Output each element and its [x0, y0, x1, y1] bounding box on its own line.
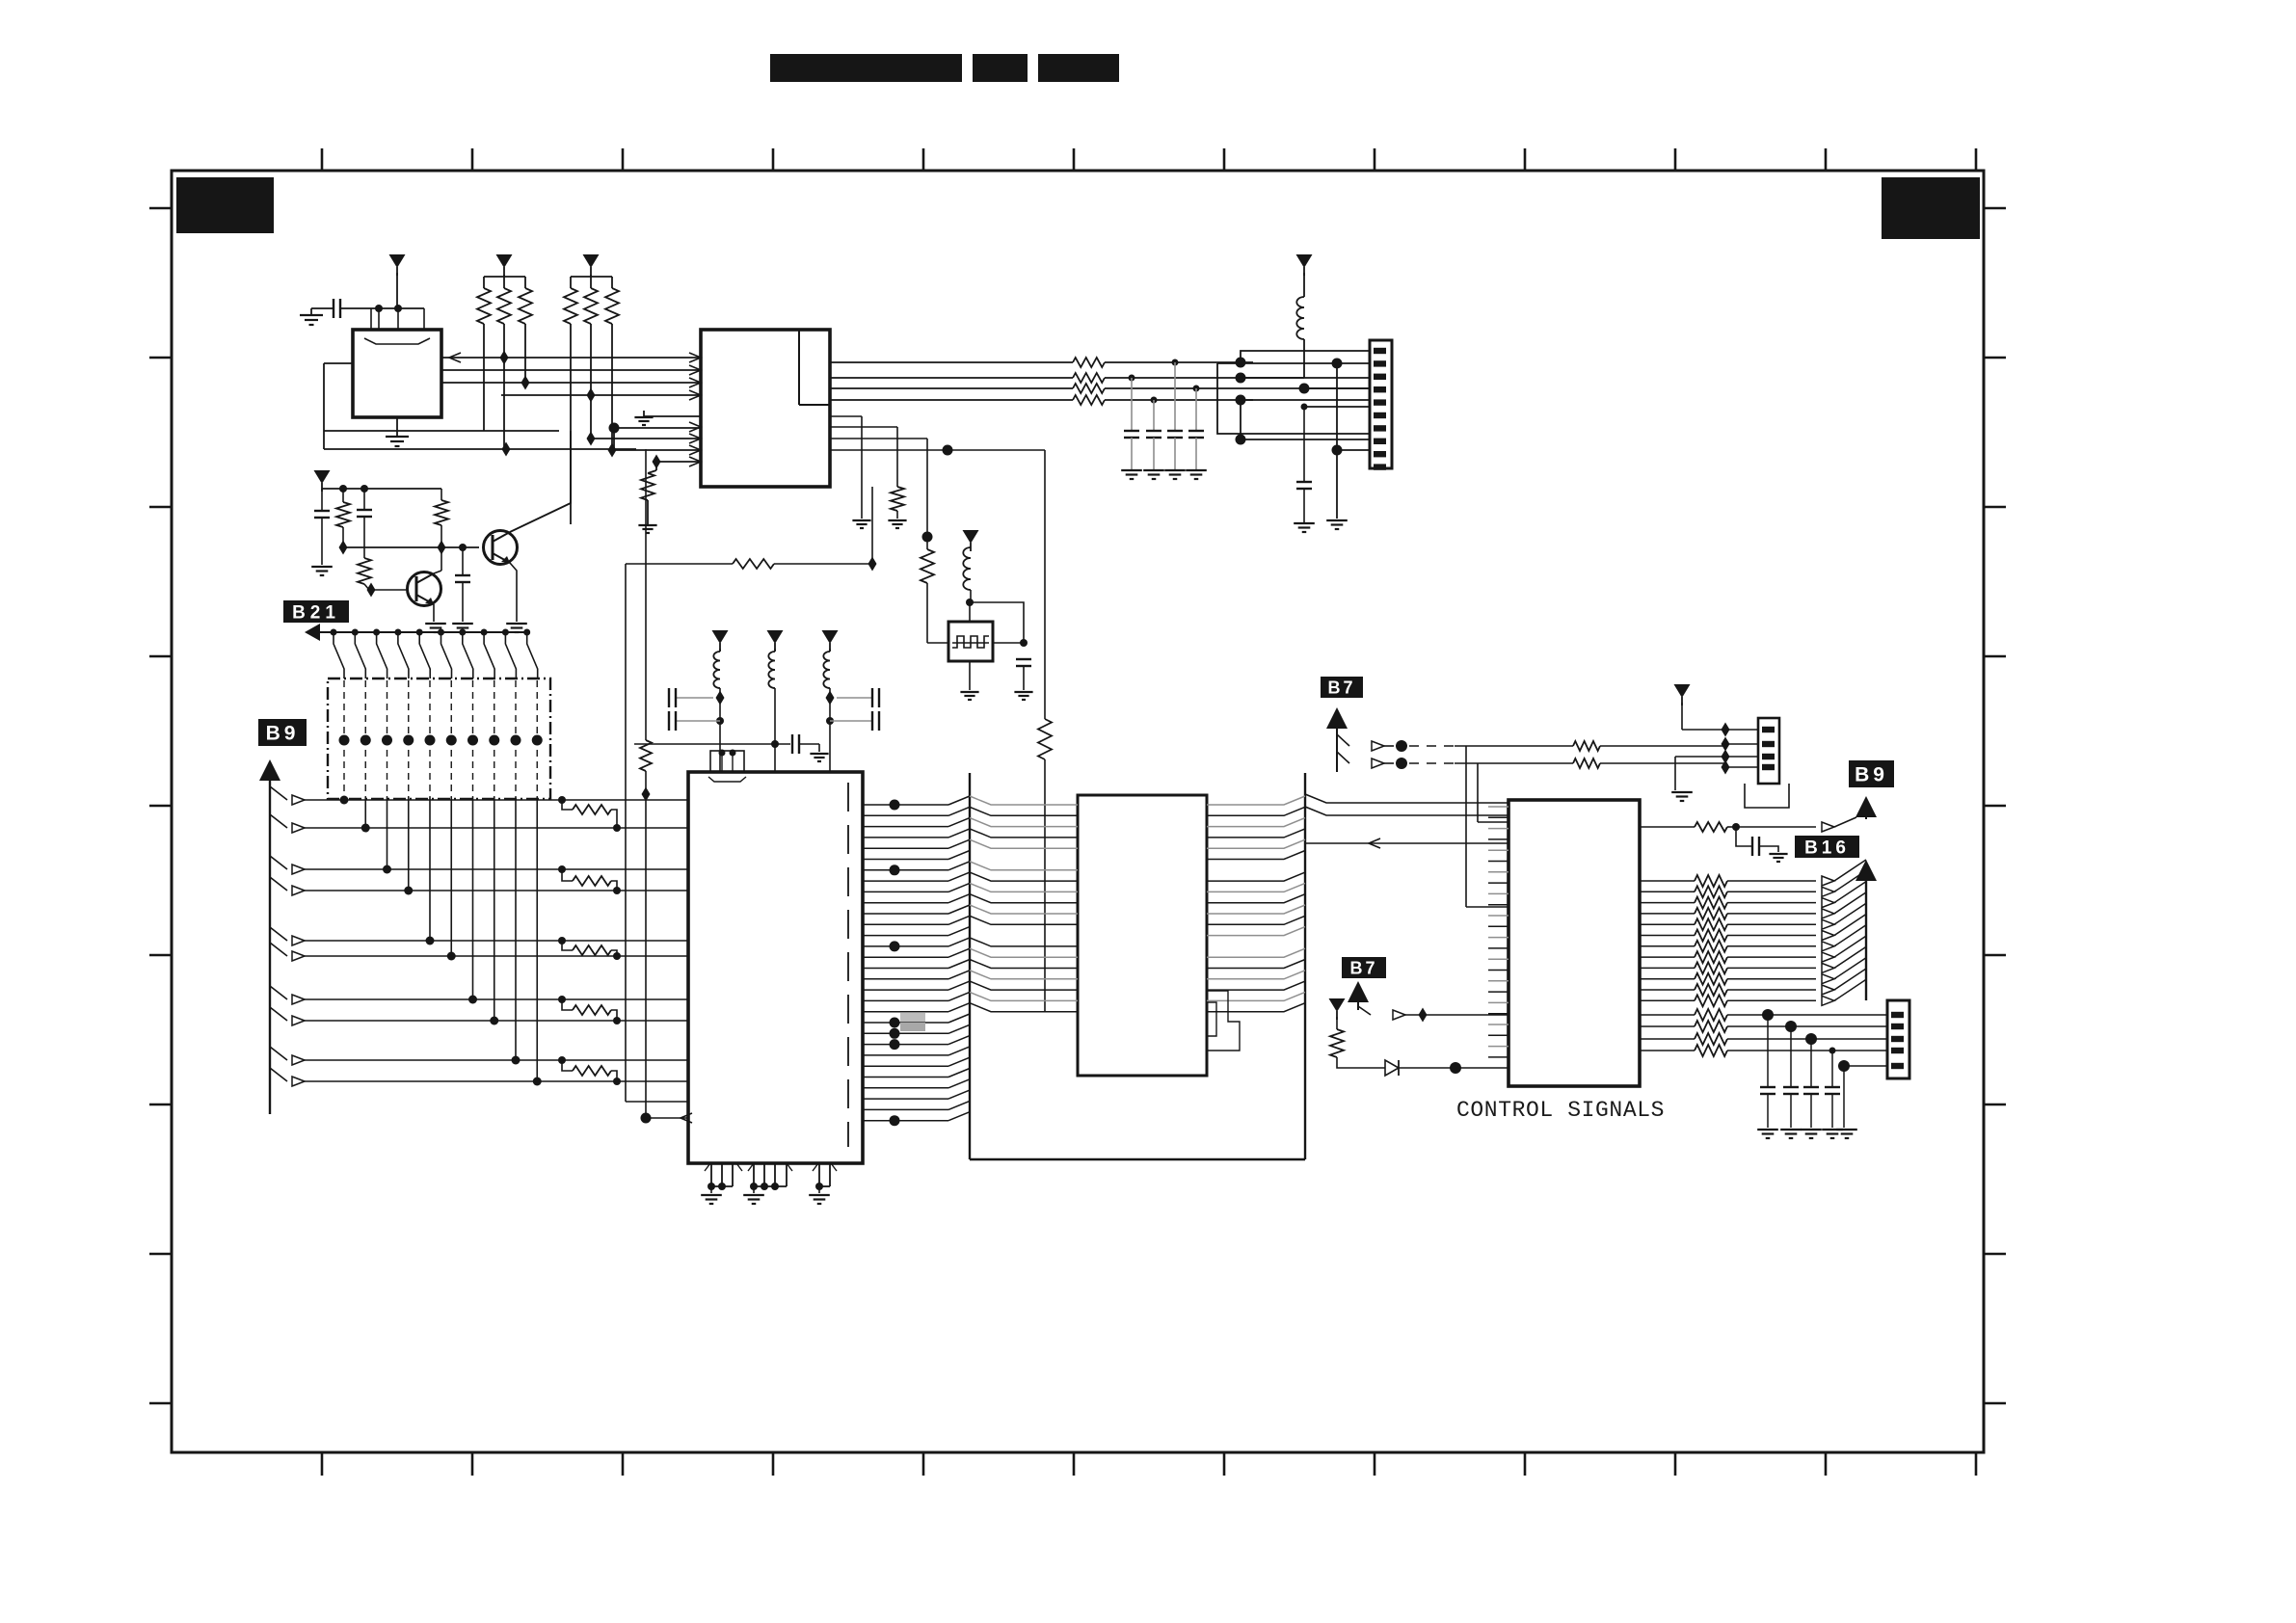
wire bus to IC5 b — [1305, 807, 1508, 815]
wire net y447 — [324, 430, 559, 432]
bus lines inside junction box — [343, 680, 345, 797]
op-amp U1 (top-left IC) — [353, 330, 441, 417]
resistor R24 detour — [558, 1056, 566, 1064]
IC5 left pin stubs — [1488, 806, 1508, 808]
wire below X2 — [1745, 784, 1789, 808]
ground at IC2 left — [644, 415, 701, 417]
wire B7b — [1337, 752, 1349, 763]
capacitor C12 — [1767, 1015, 1769, 1087]
capacitor C14 — [1810, 1039, 1812, 1087]
page link label B9 right — [1849, 760, 1894, 787]
wire IC1 left loop — [324, 362, 353, 364]
IC U4 (memory) — [1078, 795, 1207, 1076]
bus bottom join — [970, 1158, 1305, 1160]
wire net A2 — [830, 377, 1073, 379]
wire net y466 — [324, 448, 636, 450]
resistor R6 — [605, 288, 619, 324]
bus arrow B9 left — [259, 759, 280, 781]
frame tick marks bottom — [321, 1452, 324, 1476]
ground below C9 — [452, 623, 473, 625]
node dots on IC1 top wire — [375, 305, 383, 312]
capacitor C9 — [462, 547, 464, 575]
ground below resonator — [960, 691, 978, 693]
IC4 right pins to bus — [1207, 796, 1305, 805]
resistor R30 — [1573, 741, 1600, 751]
wire net A4b — [1105, 399, 1253, 401]
resistor R1 — [477, 288, 491, 324]
resistor R10 — [1073, 358, 1105, 367]
wire to C10 — [970, 602, 1024, 643]
resistor R21 detour — [558, 865, 566, 873]
IC3 top pin bracket — [710, 751, 744, 772]
capacitor C10 — [1016, 658, 1031, 660]
wire down to C6 — [1303, 407, 1305, 482]
power supply arrow above R stack A — [496, 254, 513, 268]
junction box drop connections — [343, 797, 345, 800]
frame tick marks top — [321, 148, 324, 171]
vertical wire at x1387 — [1336, 363, 1338, 519]
IC2 left pin arrowheads — [689, 353, 701, 362]
capacitor C13 — [1790, 1026, 1792, 1087]
capacitor C6 — [1296, 481, 1312, 483]
power supply arrow top right — [1296, 254, 1313, 268]
Q2 emitter to ground — [433, 604, 435, 622]
wire R5 drop — [590, 324, 592, 439]
resistor R28 — [921, 549, 934, 583]
capacitor C2 to ground — [1129, 375, 1135, 382]
capacitor C8 — [363, 489, 365, 510]
ground under C11 — [1769, 853, 1787, 855]
IC3 bottom pin groups with grounds — [710, 1163, 712, 1186]
wire net A1 — [830, 361, 1073, 363]
connector X3 (5-pin) — [1887, 1000, 1909, 1078]
ground right — [1671, 791, 1693, 793]
IC1 top pin bracket — [370, 308, 372, 330]
svg-text:B9: B9 — [266, 723, 300, 745]
page link label B7 bottom — [1342, 957, 1386, 978]
transistor Q2 — [408, 572, 441, 606]
wire net A low — [1241, 439, 1370, 440]
bus arrow B7 bottom — [1348, 981, 1369, 1002]
IC U2 (top-centre IC) — [701, 330, 830, 487]
IC U3 (main processor) — [688, 772, 863, 1163]
wire net A3 — [830, 387, 1073, 389]
IC1 bottom pin to ground — [396, 417, 398, 436]
wire to resonator riser x1086 — [830, 449, 1045, 451]
resistor R32 — [1330, 1029, 1344, 1057]
wire to X1 pin8 — [1217, 363, 1370, 434]
IC5 lower outputs to X3 — [1640, 1014, 1695, 1016]
wire B9 line 6 — [270, 943, 287, 956]
wire long vertical x592 to y1143 — [625, 564, 627, 1102]
frame tick marks left — [149, 207, 172, 210]
wire R4 drop to Q1 collector net — [570, 324, 572, 524]
resistor stack B top rail — [571, 276, 612, 278]
ground below R7 — [638, 524, 656, 526]
wire into IC2 y479 — [656, 461, 701, 463]
power supply arrow above resonator — [963, 530, 979, 544]
resistor R2 — [497, 288, 511, 324]
wire into IC2 y455 — [591, 438, 701, 439]
Q1 emitter to ground — [510, 563, 517, 622]
capacitor C18 (left of stack1) — [675, 720, 720, 722]
wire into IC2 y467 — [612, 449, 701, 451]
wire B7b into X2 — [1725, 763, 1758, 767]
resistor R3 — [519, 288, 532, 324]
wire B7a into X2 — [1724, 744, 1726, 746]
wire B7c — [1358, 1006, 1371, 1015]
wire R2 drop — [503, 324, 505, 449]
resistor R7 below — [655, 462, 657, 470]
resistor R14 — [342, 489, 344, 502]
svg-text:B21: B21 — [292, 602, 340, 623]
wire X3 pin5 — [1844, 1065, 1887, 1067]
IC4 bottom step wires — [1207, 991, 1240, 1051]
ground under C21 — [810, 753, 828, 755]
wire bus to IC5 c — [1305, 842, 1508, 844]
wire B9 line 7 — [270, 986, 287, 999]
resistor R27 x931 — [830, 426, 897, 428]
wire to X2 pin1 — [1682, 729, 1758, 731]
resonator X2 (square wave box) — [948, 622, 993, 661]
svg-text:B16: B16 — [1804, 838, 1850, 858]
Q2 collector wire — [434, 571, 441, 573]
wire B9 line 3 — [270, 856, 287, 869]
grid label box top-left — [176, 177, 274, 233]
wire bus IC1 to IC2 line2 — [441, 369, 701, 371]
resistor R11 — [1073, 373, 1105, 383]
IC5 resistor bank outputs — [1640, 880, 1695, 882]
wire B9 line 1 — [270, 786, 287, 800]
page link label B9 left — [258, 719, 307, 746]
wire B9 line 5 — [270, 927, 287, 941]
wire B7a — [1337, 734, 1349, 746]
bus arrow B21 — [305, 624, 320, 641]
wire drop to IC5 pin x1521 — [1465, 746, 1467, 907]
highlight box (grey) — [900, 1013, 925, 1022]
svg-text:B9: B9 — [1855, 764, 1888, 786]
resistor R34 on x670 riser — [640, 740, 652, 771]
wire B9 line 4 — [270, 877, 287, 891]
grid label box top-right — [1882, 177, 1980, 239]
resistor R29 — [1038, 719, 1052, 759]
connector X2 (4-pin) — [1758, 718, 1779, 784]
ground X3 pin5 — [1843, 1066, 1845, 1128]
junction box (dash-dot outline) — [328, 678, 550, 799]
node diamonds on supply stacks — [716, 691, 725, 705]
wire to R28 — [830, 438, 927, 439]
resistor R20 detour — [558, 796, 566, 804]
svg-text:B7: B7 — [1327, 678, 1355, 697]
wire bus IC1 to IC2 line1 — [441, 357, 701, 359]
border frame — [172, 171, 1984, 1452]
resistor R23 detour — [558, 996, 566, 1003]
bus arrow B16 — [1855, 860, 1877, 881]
wire bus IC1 to IC2 line3 — [441, 382, 701, 384]
inductor L2 — [963, 547, 971, 590]
resistor R31 — [1573, 758, 1600, 768]
page link label B21 — [283, 600, 349, 623]
bus arrow B9 right — [1855, 796, 1877, 817]
wire bus IC1 to IC2 line4 — [501, 394, 701, 396]
wire to capacitor C11 — [1736, 827, 1752, 846]
Q1 collector wire — [510, 431, 571, 532]
cluster top rail — [322, 488, 441, 490]
bus line left (x1006) — [969, 773, 971, 1159]
capacitor C5 to ground — [1193, 386, 1200, 392]
B21 bus branch wires — [331, 629, 337, 636]
wire long vertical x670 to y1160 — [645, 449, 647, 740]
capacitor C7 — [321, 489, 323, 511]
wire to X2 pin3 — [1675, 756, 1758, 758]
resistor R16 — [363, 547, 365, 558]
frame tick marks right — [1984, 207, 2006, 210]
capacitor C15 — [1831, 1051, 1833, 1087]
ground below C10 — [1014, 691, 1032, 693]
transistor Q1 — [484, 531, 518, 565]
wire to X1 pin5 — [1241, 399, 1370, 401]
page link label B16 — [1795, 836, 1859, 858]
node dots lower outputs — [1762, 1009, 1774, 1021]
bus arrow B7 top — [1326, 707, 1348, 729]
wire x905 riser — [871, 487, 873, 564]
capacitor C1 and ground at IC1 top — [311, 307, 334, 309]
svg-text:B7: B7 — [1349, 958, 1377, 977]
power supply arrow B7 bottom — [1329, 998, 1346, 1012]
svg-text:CONTROL SIGNALS: CONTROL SIGNALS — [1456, 1098, 1665, 1123]
power supply arrow above IC1 — [389, 254, 406, 268]
ground below C7 — [311, 566, 333, 568]
wire resonator bottom — [969, 661, 971, 690]
wire to X2 pin2 — [1725, 743, 1758, 745]
title block redaction bars — [770, 54, 962, 82]
inductor L1 — [1303, 273, 1305, 297]
wire net y585 with resistor R26 — [626, 563, 733, 565]
wire B9 line 10 — [270, 1068, 287, 1081]
wire resonator right — [993, 642, 1024, 644]
resistor stack A top rail — [484, 276, 525, 278]
wire bus to IC5 a — [1305, 794, 1508, 803]
wire B9 line 9 — [270, 1047, 287, 1060]
capacitor C20 (right of stack3) — [830, 720, 872, 722]
wire net A2b — [1105, 377, 1304, 379]
wire to X1 pin3 — [1241, 377, 1370, 379]
capacitor C4 to ground — [1172, 359, 1179, 366]
power supply arrow left cluster — [314, 470, 331, 484]
capacitor C3 to ground — [1151, 397, 1158, 404]
diode D2 — [1385, 1060, 1399, 1076]
power supply arrow right — [1674, 684, 1691, 698]
wire B9 line 8 — [270, 1007, 287, 1021]
wire resonator top — [969, 602, 971, 622]
resistor R4 — [564, 288, 577, 324]
wire to X1 pin2 — [1217, 362, 1370, 364]
connector X1 (10-pin) — [1370, 340, 1392, 468]
wire into IC2 pin — [614, 427, 701, 429]
capacitor C19 (right of stack3) — [837, 697, 872, 699]
resistor R13 — [1073, 395, 1105, 405]
node dot D1 — [609, 423, 620, 434]
IC4 left pins from bus — [970, 796, 1078, 805]
wire to X1 pin4 — [1304, 387, 1370, 389]
power supply arrow above R stack B — [583, 254, 600, 268]
wire to X1 pin10 — [1337, 449, 1370, 451]
wire IC5 out with resistor R33 — [1640, 826, 1695, 828]
resistor R22 detour — [558, 937, 566, 945]
page link label B7 top — [1321, 677, 1363, 698]
ground below C6 — [1294, 522, 1315, 524]
wire IC2 pin to ground x894 — [830, 415, 862, 417]
base net wire — [343, 546, 479, 548]
wire R6 drop — [611, 324, 613, 450]
wire R1 drop — [483, 324, 485, 431]
wire R3 drop — [524, 324, 526, 383]
wire from dot down — [613, 428, 615, 449]
wire riser to X1 pin1 — [1241, 351, 1370, 362]
IC3 top supply stacks — [712, 630, 729, 644]
wire net A4 — [830, 399, 1073, 401]
wire drop to IC5 pin x1533 — [1477, 763, 1479, 822]
wire net A3b — [1105, 387, 1370, 389]
capacitor C17 (left of stack1) — [675, 697, 713, 699]
wire to X1 pin6 — [1304, 406, 1370, 408]
wire net A1b — [1105, 361, 1253, 363]
resistor R15 — [441, 489, 442, 500]
resistor R5 — [584, 288, 598, 324]
IC3 right pin fan to bus — [863, 804, 948, 806]
wire net y772 with capacitor C21 — [634, 743, 790, 745]
wire B9 line 2 — [270, 814, 287, 828]
bus line right (x1354) — [1304, 773, 1306, 1159]
IC U5 (control signals IC) — [1508, 800, 1640, 1086]
IC3 bottom bracket marks — [705, 1163, 742, 1171]
resistor R12 — [1073, 384, 1105, 393]
